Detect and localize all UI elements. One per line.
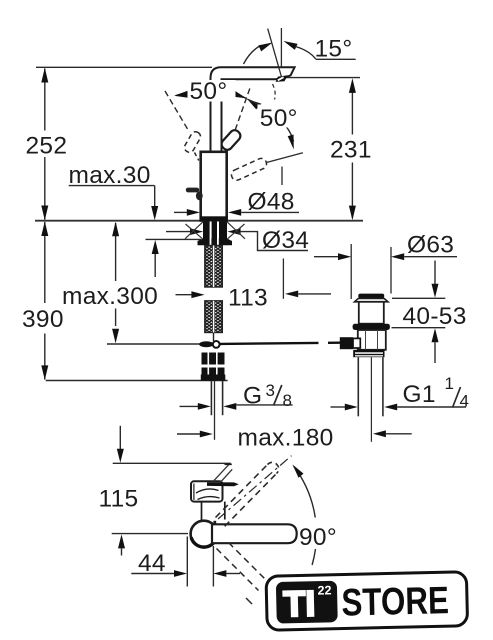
pivot bottom heavy arc	[191, 538, 216, 548]
max30 label underline	[69, 185, 155, 187]
shank white slot right	[217, 222, 219, 239]
spout and neck outline	[211, 67, 295, 152]
lower lever axis line	[267, 153, 303, 163]
dim 113 left line	[176, 294, 193, 296]
body bottom black band	[200, 216, 227, 221]
G38 leader underline	[236, 404, 292, 406]
supply pipe right wall	[222, 381, 224, 415]
max30 lower leader	[154, 254, 156, 277]
top view body square	[191, 481, 223, 501]
dashed rotated spout edge a	[216, 465, 268, 518]
tailpipe right wall	[382, 357, 384, 416]
dia63 left arrowhead	[338, 253, 351, 260]
svg-text:3: 3	[266, 381, 275, 400]
pop-up horizontal rod right part	[328, 342, 340, 344]
dim max300 arrow down	[112, 329, 119, 344]
handle diagonal b	[221, 469, 233, 482]
tailpipe left wall	[357, 357, 359, 416]
dim 40-53 top line	[392, 297, 445, 299]
drain o-ring band	[353, 324, 390, 330]
dim 44 left-pointing arrowhead	[213, 570, 226, 577]
aerator extension segment mid	[281, 167, 283, 186]
GROUP: diameter 48	[174, 209, 299, 216]
swing axis dash-dot	[218, 456, 292, 519]
svg-text:G1: G1	[403, 381, 436, 408]
svg-text:Ø48: Ø48	[248, 189, 295, 216]
reference line: aerator outlet level	[284, 77, 360, 79]
body double left edge	[193, 484, 195, 501]
max30 arrow up below counter	[152, 240, 159, 254]
side lever pivot blob	[196, 191, 203, 200]
arc 50deg right lower segment	[285, 125, 294, 142]
dim 113 right arrowhead	[285, 291, 298, 298]
nut white slot v1	[208, 353, 210, 375]
dim 390 line upper	[44, 222, 46, 303]
svg-text:TI: TI	[283, 583, 316, 625]
washer band	[201, 375, 226, 381]
svg-text:50°: 50°	[260, 105, 298, 132]
svg-text:8: 8	[283, 391, 292, 410]
dim 231 arrow down	[349, 206, 356, 221]
svg-text:50°: 50°	[190, 78, 228, 105]
counter top line	[35, 220, 363, 222]
dashed rotated spout end cap	[268, 462, 279, 473]
dim 115 lower leader	[121, 548, 123, 555]
dim 44 text line	[131, 573, 175, 575]
reference line: 390 bottom	[46, 380, 228, 382]
neck left line	[201, 502, 203, 522]
dim 40-53 bottom line	[392, 327, 446, 329]
arrowhead 15deg left	[258, 43, 272, 52]
svg-text:44: 44	[138, 550, 166, 577]
drain head flare	[355, 299, 389, 302]
bowtie arrowhead upper	[232, 90, 246, 98]
leader curve to 15deg label	[296, 47, 316, 59]
lower dashed lever knob	[230, 157, 268, 182]
dia48 left arrowhead	[187, 209, 200, 216]
drill cross mark left a	[185, 222, 203, 239]
dia63 ext line left	[350, 244, 352, 299]
svg-text:Ø34: Ø34	[262, 227, 309, 254]
tailpipe center line	[370, 357, 372, 442]
drill cross mark right a	[227, 222, 245, 239]
GROUP: dim 231	[349, 78, 356, 220]
GROUP: faucet body front view	[186, 67, 295, 221]
lower mounting nut	[202, 353, 225, 375]
nut white slot v2	[216, 353, 218, 375]
pull rod below	[214, 381, 216, 440]
threaded rod lower	[205, 301, 223, 333]
side lever loop	[186, 188, 199, 193]
dash fragment below	[246, 598, 252, 604]
dia48 right arrowhead	[228, 209, 241, 216]
svg-text:115: 115	[99, 485, 139, 512]
GROUP: diameter 63 and 40-53	[314, 244, 457, 363]
svg-text:max.180: max.180	[238, 425, 334, 452]
svg-text:90°: 90°	[299, 524, 337, 551]
svg-text:STORE: STORE	[341, 579, 449, 624]
GROUP: drain assembly	[340, 294, 390, 442]
dim max300 line upper	[115, 223, 117, 281]
tilted aerator axis 15deg	[268, 29, 282, 77]
label 50deg second background	[258, 105, 305, 128]
max180 right line	[386, 433, 412, 435]
logo outer rounded frame	[266, 572, 468, 631]
handle tip edge	[225, 463, 232, 465]
flange slot right	[217, 239, 219, 246]
arc 15deg left segment	[244, 46, 261, 65]
rod attachment white box	[353, 338, 360, 348]
GROUP: left dimensions	[41, 68, 158, 380]
GROUP: lever swing construction	[165, 89, 303, 182]
drain lower body	[358, 330, 386, 350]
dia48 right line and underline	[241, 211, 299, 213]
dim 113 right line	[298, 293, 331, 295]
G114 fraction slash	[453, 387, 461, 408]
drill cross mark right b	[228, 224, 245, 239]
logo TI badge	[276, 581, 338, 624]
drain bottom nut slot	[355, 352, 383, 354]
label 50deg first background	[188, 80, 236, 102]
spout tube front edge	[213, 521, 216, 534]
dim 40-53 upper leader	[434, 261, 436, 285]
dim 231 line upper	[351, 82, 353, 135]
dim 231 arrow up	[349, 78, 356, 93]
pop-up rod pivot circle	[213, 341, 220, 348]
ext line pivot left	[186, 537, 188, 587]
GROUP: faucet top view	[191, 456, 317, 604]
dim 252 arrow up	[41, 68, 48, 83]
dim 390 line lower	[44, 334, 46, 380]
svg-text:4: 4	[460, 392, 469, 411]
G114 left arrow line	[331, 406, 346, 408]
shank white slot left	[210, 222, 212, 239]
pop-up horizontal rod left part	[220, 343, 319, 344]
dim 390 arrow down	[41, 365, 48, 380]
aerator	[276, 75, 288, 82]
threaded rod lower center gap	[213, 301, 214, 333]
dim max300 line lower	[115, 309, 117, 327]
label 15deg underline	[316, 58, 356, 60]
flange slot left	[210, 239, 212, 246]
G38 left arrow line	[180, 405, 199, 407]
G38 left arrowhead	[198, 403, 211, 410]
aerator extension segment low	[282, 259, 284, 299]
body	[201, 152, 227, 221]
svg-text:252: 252	[26, 133, 68, 160]
arrowhead 15deg right	[284, 41, 298, 50]
dia63 left arrow line	[314, 256, 339, 258]
bottomview top reference line	[113, 462, 231, 464]
threaded rod upper center gap	[213, 246, 214, 288]
GROUP: TI STORE logo	[266, 572, 468, 631]
nut white slot h	[202, 365, 225, 368]
top lever knob (solid)	[220, 128, 243, 152]
dim 44 right line	[226, 573, 240, 575]
body lower arc	[198, 497, 220, 500]
swivel pivot circle	[191, 521, 217, 547]
dim 252 line upper	[44, 69, 46, 131]
label 90deg background	[298, 518, 344, 550]
right lever axis dashed line	[235, 89, 250, 131]
dim 252 line lower	[44, 157, 46, 220]
dim 252 arrow down	[41, 206, 48, 221]
dim 115 upper leader	[119, 426, 121, 450]
max180 left arrowhead	[200, 431, 213, 438]
supply pipe left wall	[210, 381, 212, 415]
dim 40-53 arrow up	[432, 328, 439, 342]
arc 50deg right upper segment	[247, 99, 264, 108]
ext line spout left	[212, 546, 214, 587]
dim max300 arrow up	[112, 222, 119, 237]
drain inner rod lines	[365, 330, 367, 350]
svg-text:Ø63: Ø63	[407, 231, 454, 258]
vertical extension line through aerator	[280, 28, 282, 67]
counter underside line	[146, 238, 202, 240]
dia34 left arrow line	[166, 231, 191, 233]
rod attachment knob	[340, 337, 353, 349]
G38 fraction slash	[274, 385, 282, 406]
pop-up rod ball	[199, 341, 213, 347]
rod stub to ball	[213, 333, 215, 342]
handle diagonal a	[213, 465, 229, 483]
GROUP: bottom view references	[112, 426, 240, 587]
drain bottom nut band	[353, 350, 384, 357]
max180 right arrowhead	[373, 430, 386, 437]
mounting flange nut	[198, 239, 233, 246]
dia63 right arrowhead	[391, 253, 404, 260]
dim 113 left arrowhead	[191, 291, 204, 298]
GROUP: diameter 34	[166, 228, 308, 250]
G114 right line	[397, 406, 466, 408]
svg-text:1: 1	[445, 374, 454, 393]
svg-text:113: 113	[228, 285, 268, 312]
arc 50deg left	[176, 91, 247, 99]
G114 left arrowhead	[345, 404, 358, 411]
dia48 left arrow line	[174, 211, 189, 213]
dim 44 right arrowhead	[174, 570, 187, 577]
threaded rod upper	[205, 246, 223, 288]
arrowhead 50deg-2 end	[288, 135, 294, 150]
max30 arrow down	[151, 206, 158, 220]
reference line: spout top level	[36, 66, 212, 68]
aerator swing dashed path	[273, 84, 276, 100]
svg-text:231: 231	[330, 137, 372, 164]
spout capsule top view	[212, 524, 297, 543]
dim 40-53 arrow down	[432, 284, 439, 298]
handle bar edge-on	[207, 482, 239, 486]
dashed rotated spout edge b	[225, 474, 277, 527]
drill cross mark left b	[186, 224, 203, 239]
left dashed lever knob	[183, 130, 202, 154]
max180 left line	[177, 433, 201, 435]
G114 right arrowhead	[384, 404, 397, 411]
G38 right arrowhead	[223, 403, 236, 410]
GROUP: 15 degree construction	[244, 28, 356, 299]
svg-text:G: G	[243, 382, 262, 409]
GROUP: dim 113	[176, 291, 332, 299]
arrowhead 90deg	[293, 465, 304, 478]
neck right line	[224, 502, 226, 520]
dashed swung-down spout edge b	[229, 543, 270, 584]
dim 115 arrow down	[117, 449, 124, 463]
svg-text:390: 390	[22, 306, 64, 333]
shank through counter	[203, 222, 227, 239]
dim 390 arrow up	[41, 221, 48, 236]
dia34 bracket to label	[241, 232, 308, 251]
svg-text:max.30: max.30	[69, 162, 151, 189]
max30 leader vertical	[154, 186, 156, 207]
svg-text:max.300: max.300	[62, 283, 158, 310]
dim 115 arrow up	[118, 534, 125, 548]
dim 231 line lower	[351, 163, 353, 219]
dia63 ext line right	[390, 247, 392, 294]
dim 40-53 lower leader	[434, 342, 436, 363]
dashed swung-down spout edge a	[217, 549, 259, 591]
GROUP: max.180 dimension	[177, 430, 412, 437]
drain upper body	[359, 302, 384, 324]
reference line: max.300 bottom / rod level	[107, 343, 200, 345]
dia63 right line underline	[404, 256, 457, 258]
body dome arc	[196, 489, 219, 493]
dia34 left arrowhead	[190, 228, 203, 235]
dia34 right arrowhead	[227, 228, 240, 235]
bowtie arrowhead lower	[247, 99, 261, 109]
svg-text:40-53: 40-53	[403, 303, 467, 330]
svg-text:15°: 15°	[315, 36, 353, 63]
left lever axis dashed line	[165, 91, 189, 132]
left dashed lever stem	[195, 153, 199, 161]
drain plug top band	[358, 294, 384, 299]
GROUP: G3/8 thread label	[180, 385, 293, 410]
arc 90deg	[294, 466, 317, 565]
svg-text:22: 22	[317, 583, 331, 597]
GROUP: main front elevation	[35, 67, 363, 380]
GROUP: G1 1/4 thread label	[331, 387, 467, 410]
bottomview spout axis reference line	[112, 533, 188, 535]
arrowhead 50deg-1 left	[174, 90, 189, 98]
